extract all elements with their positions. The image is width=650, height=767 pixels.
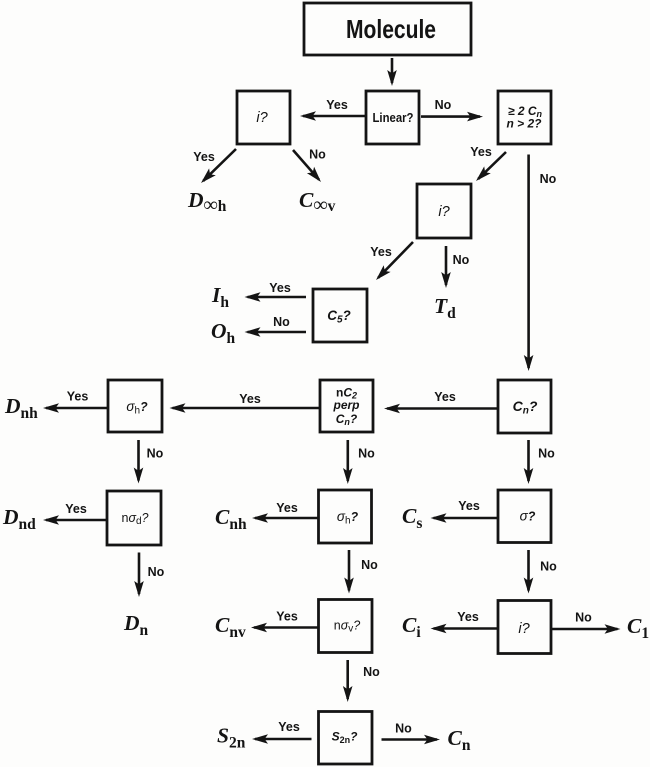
svg-text:Yes: Yes bbox=[457, 610, 479, 624]
svg-text:Yes: Yes bbox=[67, 390, 89, 404]
svg-text:No: No bbox=[309, 148, 326, 162]
svg-text:No: No bbox=[148, 565, 165, 579]
svg-text:No: No bbox=[363, 665, 380, 679]
svg-text:Yes: Yes bbox=[276, 610, 298, 624]
svg-text:Yes: Yes bbox=[65, 502, 87, 516]
svg-text:No: No bbox=[273, 315, 290, 329]
svg-text:No: No bbox=[453, 253, 470, 267]
svg-text:i?: i? bbox=[518, 621, 530, 637]
svg-text:i?: i? bbox=[438, 204, 450, 220]
svg-text:nσv?: nσv? bbox=[334, 619, 361, 635]
svg-text:Yes: Yes bbox=[193, 150, 215, 164]
svg-text:nσd?: nσd? bbox=[121, 511, 148, 527]
svg-text:Yes: Yes bbox=[370, 245, 392, 259]
svg-text:No: No bbox=[575, 611, 592, 625]
svg-text:Yes: Yes bbox=[278, 720, 300, 734]
svg-text:Yes: Yes bbox=[326, 98, 348, 112]
svg-text:Yes: Yes bbox=[470, 145, 492, 159]
svg-text:Yes: Yes bbox=[458, 499, 480, 513]
svg-text:perp: perp bbox=[332, 398, 359, 412]
svg-text:i?: i? bbox=[256, 110, 268, 126]
svg-text:No: No bbox=[361, 558, 378, 572]
svg-text:Yes: Yes bbox=[434, 390, 456, 404]
svg-text:No: No bbox=[540, 560, 557, 574]
svg-text:Linear?: Linear? bbox=[373, 110, 414, 125]
svg-text:No: No bbox=[358, 447, 375, 461]
svg-text:No: No bbox=[538, 447, 555, 461]
svg-text:Yes: Yes bbox=[276, 501, 298, 515]
svg-text:n > 2?: n > 2? bbox=[506, 117, 542, 131]
svg-text:Yes: Yes bbox=[269, 281, 291, 295]
svg-text:Yes: Yes bbox=[239, 392, 261, 406]
svg-text:Molecule: Molecule bbox=[346, 14, 436, 44]
svg-text:No: No bbox=[435, 98, 452, 112]
svg-text:No: No bbox=[395, 722, 412, 736]
svg-text:No: No bbox=[540, 172, 557, 186]
svg-text:No: No bbox=[147, 447, 164, 461]
svg-text:σ?: σ? bbox=[520, 509, 536, 524]
